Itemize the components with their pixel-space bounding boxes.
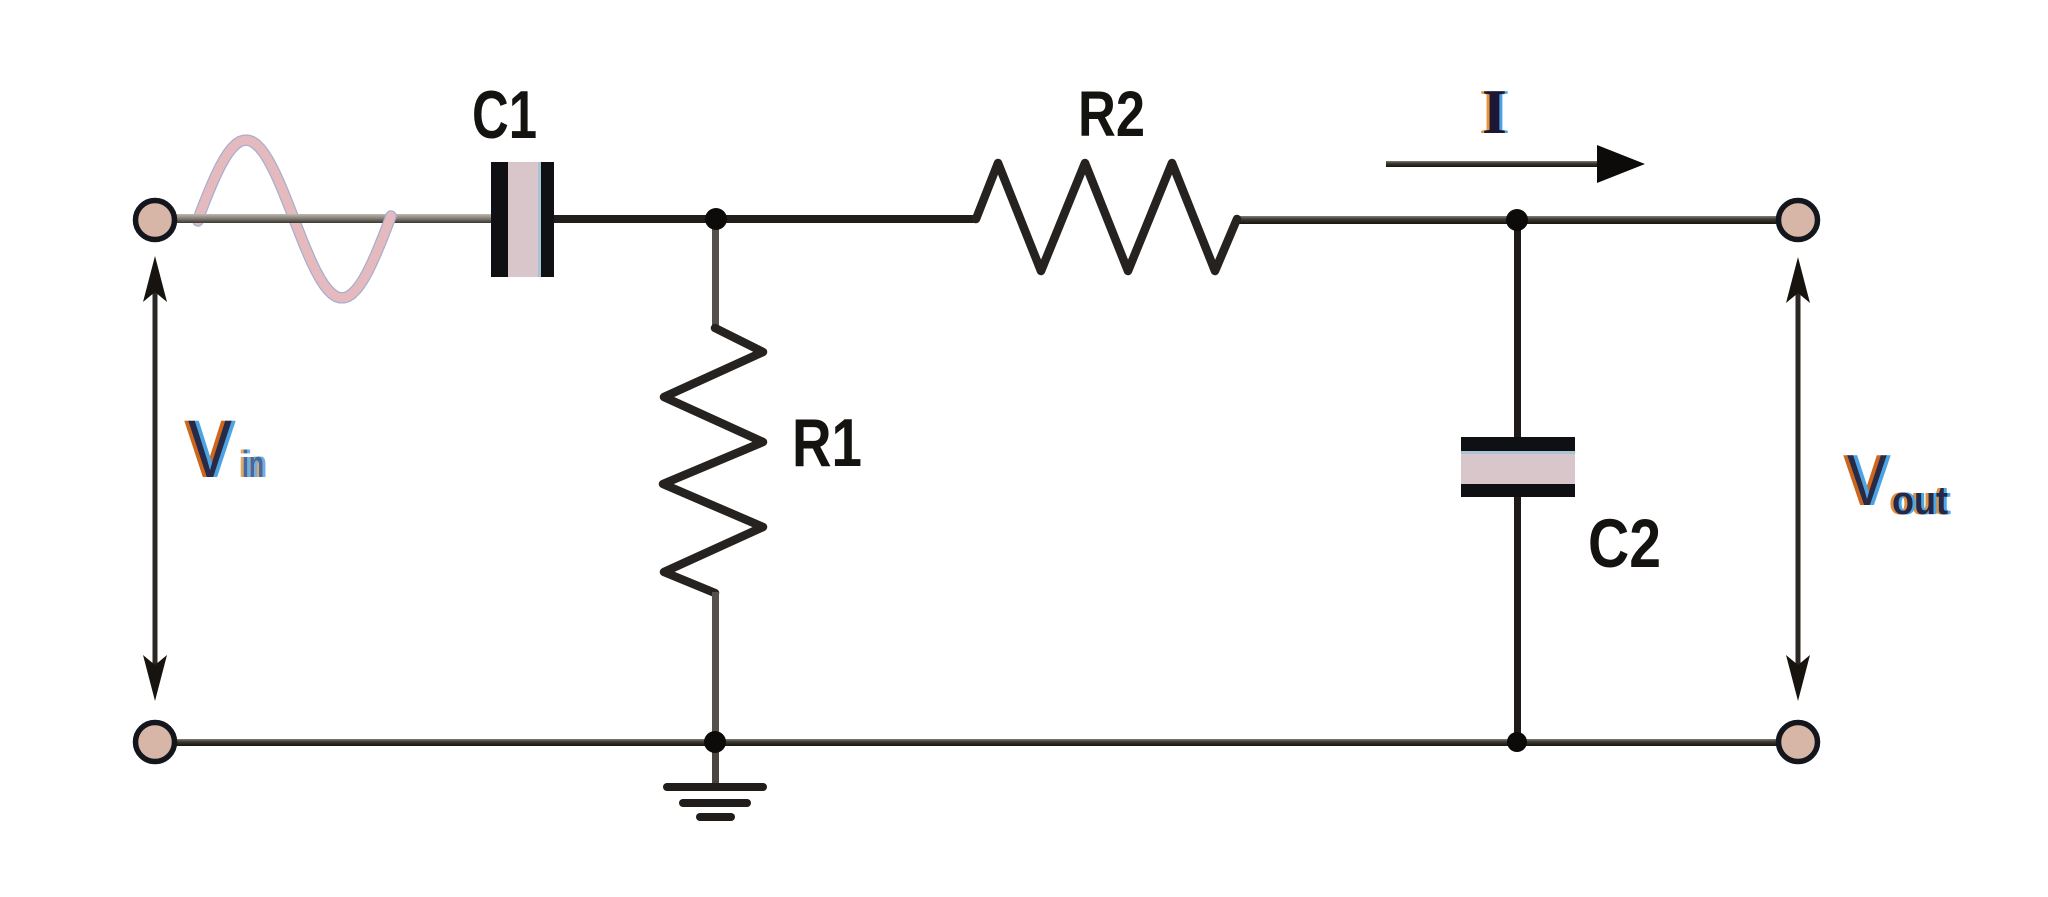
svg-text:out: out xyxy=(1892,479,1948,523)
svg-text:V: V xyxy=(188,404,232,495)
svg-text:I: I xyxy=(1482,76,1507,147)
svg-text:R2: R2 xyxy=(1078,78,1145,150)
svg-text:C2: C2 xyxy=(1588,505,1661,582)
svg-text:C1: C1 xyxy=(472,77,537,153)
svg-text:V: V xyxy=(1847,441,1887,521)
svg-text:R1: R1 xyxy=(792,405,862,481)
svg-text:in: in xyxy=(242,444,264,486)
